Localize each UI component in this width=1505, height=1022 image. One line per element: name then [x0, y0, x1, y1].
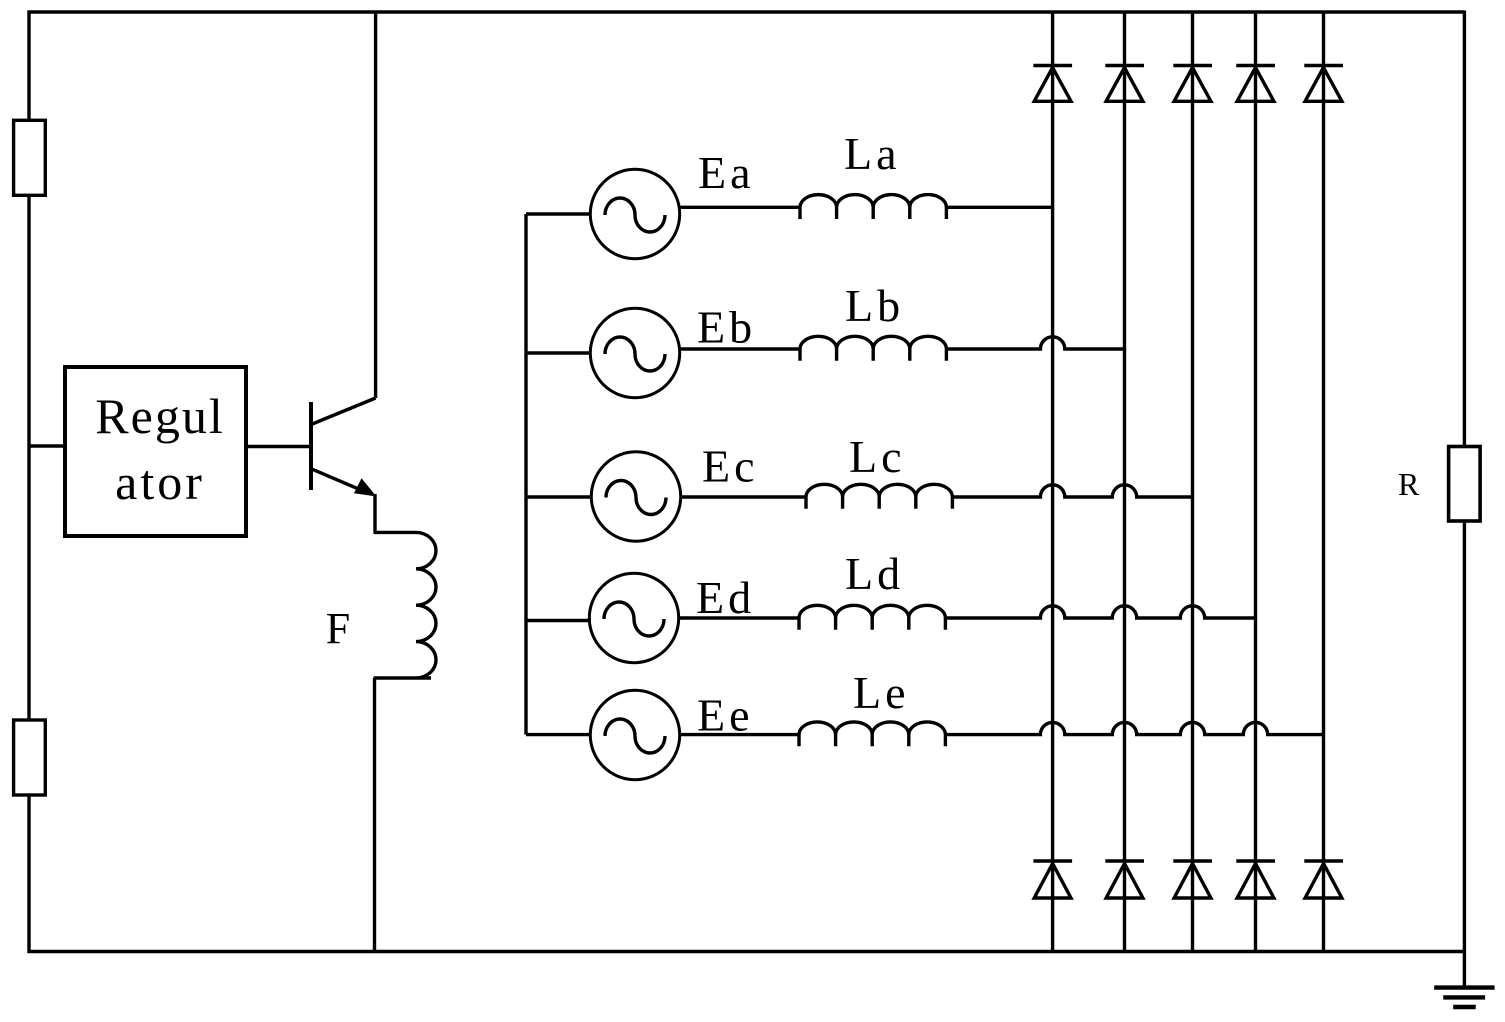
svg-text:Ec: Ec	[702, 440, 759, 491]
node bus4 vertical	[1254, 12, 1257, 952]
diode D6 bottom bus1	[1033, 861, 1072, 898]
wire Ec to Lc	[680, 495, 806, 498]
wire bottom border	[28, 950, 1465, 953]
wire Ee to Le	[679, 733, 799, 736]
wire bus to source Eb	[526, 351, 591, 354]
wire bus to source Ea	[526, 212, 591, 215]
diode D9 bottom bus4	[1236, 861, 1275, 898]
node bus3 vertical	[1191, 12, 1194, 952]
wire border to regulator	[29, 444, 65, 447]
wire F to bottom border	[373, 678, 376, 952]
diode D5 top bus5	[1304, 66, 1343, 102]
source Ea	[590, 169, 679, 258]
wire right border lower	[1463, 521, 1466, 988]
svg-text:F: F	[326, 604, 350, 653]
wire collector to top border	[374, 12, 377, 398]
source Eb	[590, 308, 679, 397]
svg-text:Ld: Ld	[845, 548, 904, 599]
svg-text:Le: Le	[853, 667, 910, 718]
wire Eb to Lb	[679, 347, 800, 350]
wire Lc to bus3 with hops over bus1 bus2	[952, 485, 1192, 497]
svg-text:Lb: Lb	[845, 280, 904, 331]
wire bus to source Ed	[526, 619, 591, 622]
diode D3 top bus3	[1173, 66, 1212, 102]
transistor Q1 emitter arrow	[354, 478, 377, 496]
svg-text:Eb: Eb	[697, 302, 756, 353]
wire Ea to La	[679, 206, 800, 209]
source Ed	[589, 573, 678, 662]
node source bus	[524, 214, 527, 735]
diode D1 top bus1	[1033, 66, 1072, 102]
wire left border middle	[27, 195, 30, 720]
wire bus to source Ee	[526, 733, 591, 736]
resistor R	[1449, 447, 1481, 522]
svg-text:Ea: Ea	[698, 147, 755, 198]
wire regulator to transistor base	[246, 445, 311, 448]
inductor F	[374, 532, 437, 678]
wire top border	[28, 10, 1465, 13]
wire left border lower	[27, 795, 30, 953]
wire bus to source Ec	[526, 495, 591, 498]
wire Lb to bus2 with hop over bus1	[946, 337, 1124, 349]
svg-text:Ed: Ed	[696, 572, 755, 623]
diode D4 top bus4	[1236, 66, 1275, 102]
diode D8 bottom bus3	[1173, 861, 1212, 898]
diode D10 bottom bus5	[1304, 861, 1343, 898]
source Ee	[590, 690, 679, 779]
source Ec	[591, 452, 680, 541]
inductor Lb	[800, 336, 946, 360]
wire right border upper	[1463, 11, 1466, 447]
svg-text:Ee: Ee	[697, 689, 754, 740]
inductor Le	[799, 722, 945, 746]
node bus2 vertical	[1123, 12, 1126, 952]
regulator box U1	[65, 367, 246, 536]
svg-text:Regul: Regul	[95, 388, 224, 444]
wire Ed to Ld	[678, 616, 799, 619]
inductor La	[800, 195, 946, 219]
svg-text:Lc: Lc	[849, 431, 906, 482]
wire left border upper	[27, 11, 30, 121]
inductor Ld	[799, 605, 945, 629]
svg-text:R: R	[1398, 466, 1420, 502]
diode D2 top bus2	[1105, 66, 1144, 102]
diode D7 bottom bus2	[1105, 861, 1144, 898]
node bus5 vertical	[1322, 12, 1325, 952]
wire emitter down	[373, 494, 376, 532]
resistor left lower	[14, 720, 46, 795]
transistor Q1 base bar	[309, 402, 313, 490]
wire Ld to bus4 with hops over bus1 bus2 bus3	[945, 606, 1255, 618]
transistor Q1 emitter	[311, 469, 364, 492]
node bus1 vertical	[1051, 12, 1054, 952]
wire La to bus1	[946, 206, 1054, 209]
ground	[1434, 985, 1494, 989]
inductor Lc	[806, 484, 952, 508]
resistor left upper	[14, 120, 46, 195]
transistor Q1 collector	[311, 398, 376, 425]
wire Le to bus5 with hops over bus1 bus2 bus3 bus4	[945, 722, 1323, 734]
svg-text:ator: ator	[115, 454, 205, 510]
svg-text:La: La	[844, 128, 901, 179]
